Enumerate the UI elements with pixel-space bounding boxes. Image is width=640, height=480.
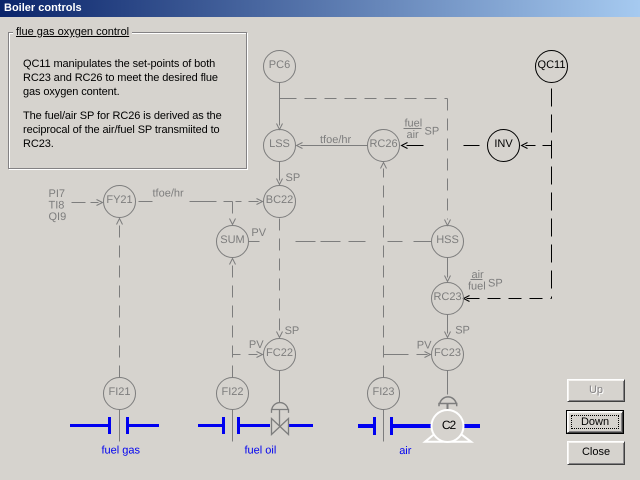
svg-text:QI9: QI9 — [49, 211, 67, 223]
svg-text:PV: PV — [417, 340, 432, 352]
svg-text:FC23: FC23 — [434, 347, 461, 359]
svg-text:FI21: FI21 — [108, 386, 130, 398]
svg-text:RC26: RC26 — [369, 138, 397, 150]
svg-text:INV: INV — [494, 138, 513, 150]
svg-text:BC22: BC22 — [266, 194, 294, 206]
svg-text:fuel: fuel — [405, 118, 423, 130]
svg-text:PC6: PC6 — [269, 59, 290, 71]
svg-text:SP: SP — [286, 172, 301, 184]
svg-text:C2: C2 — [442, 418, 457, 432]
svg-text:SP: SP — [455, 325, 470, 337]
svg-text:PV: PV — [249, 339, 264, 351]
svg-text:SUM: SUM — [220, 234, 244, 246]
svg-text:SP: SP — [425, 126, 440, 138]
svg-text:FI22: FI22 — [221, 386, 243, 398]
svg-text:FC22: FC22 — [266, 347, 293, 359]
svg-text:tfoe/hr: tfoe/hr — [153, 188, 185, 200]
svg-text:PI7: PI7 — [49, 188, 66, 200]
svg-text:LSS: LSS — [269, 138, 290, 150]
svg-text:tfoe/hr: tfoe/hr — [320, 134, 352, 146]
svg-text:SP: SP — [488, 278, 503, 290]
svg-text:QC11: QC11 — [538, 59, 566, 71]
svg-text:air: air — [399, 445, 412, 457]
svg-text:HSS: HSS — [436, 234, 459, 246]
svg-text:TI8: TI8 — [49, 200, 65, 212]
svg-text:FY21: FY21 — [106, 194, 132, 206]
svg-text:fuel oil: fuel oil — [245, 445, 277, 457]
svg-text:air: air — [407, 129, 420, 141]
svg-text:PV: PV — [251, 227, 266, 239]
svg-text:RC23: RC23 — [433, 291, 461, 303]
svg-text:fuel: fuel — [468, 281, 486, 293]
svg-text:fuel gas: fuel gas — [102, 445, 141, 457]
svg-text:FI23: FI23 — [372, 386, 394, 398]
svg-text:SP: SP — [285, 325, 300, 337]
